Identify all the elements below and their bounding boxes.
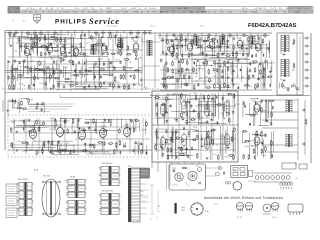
svg-text:S62: S62 [140,191,143,193]
svg-text:1k59: 1k59 [51,59,55,61]
svg-text:B8: B8 [158,206,160,208]
svg-text:MC 14 S20: MC 14 S20 [18,179,27,181]
svg-text:B9A: B9A [205,210,209,213]
svg-text:EB80: EB80 [255,41,261,43]
svg-text:S61 S62: S61 S62 [43,176,50,178]
svg-text:5p12: 5p12 [95,34,99,36]
svg-text:10k41: 10k41 [173,93,178,95]
svg-text:ECC91: ECC91 [169,44,177,46]
svg-text:64: 64 [150,219,152,221]
svg-text:9---: 9--- [305,8,309,10]
svg-text:1805.: 1805. [123,12,129,14]
svg-text:Tr 1: Tr 1 [34,169,39,172]
svg-text:4,739: 4,739 [270,62,275,64]
svg-text:PCF93: PCF93 [100,126,107,128]
svg-text:12: 12 [156,217,158,219]
svg-text:5979: 5979 [106,8,112,10]
svg-text:47k47: 47k47 [60,42,65,44]
svg-text:1k11: 1k11 [223,137,227,139]
svg-text:Service: Service [89,16,120,26]
svg-text:913..: 913.. [30,8,35,10]
svg-text:1+77: 1+77 [271,8,277,10]
svg-text:R11: R11 [144,130,147,132]
svg-text:31: 31 [147,196,149,198]
svg-text:0,111: 0,111 [224,156,228,158]
svg-text:0,14: 0,14 [158,118,162,120]
svg-text:4,743: 4,743 [213,154,218,156]
svg-text:Anschlüsse der Ventil- Röhren: Anschlüsse der Ventil- Röhren und Transi… [204,196,283,200]
svg-text:90--2: 90--2 [115,12,121,14]
svg-text:9-: 9- [100,8,102,10]
svg-text:C22: C22 [194,77,197,79]
svg-text:2n17: 2n17 [249,141,253,143]
svg-text:10,,4: 10,,4 [121,8,127,10]
svg-text:47k35: 47k35 [193,127,198,129]
svg-text:4,750: 4,750 [235,104,240,106]
svg-text:OA70: OA70 [181,206,185,209]
svg-text:0,116: 0,116 [19,83,23,85]
svg-text:6: 6 [147,208,148,210]
svg-text:26: 26 [147,190,149,192]
svg-text:617.6: 617.6 [242,8,248,10]
svg-text:PHILIPS: PHILIPS [55,18,87,25]
svg-text:C8: C8 [249,86,251,88]
svg-text:M3: M3 [140,195,143,197]
svg-text:09.58: 09.58 [200,25,205,27]
svg-text:2n40: 2n40 [138,85,142,87]
svg-text:1k21: 1k21 [257,108,261,110]
svg-text:0,152: 0,152 [86,42,91,44]
svg-text:10056: 10056 [103,75,108,77]
svg-text:WK 152 408: WK 152 408 [107,26,117,28]
svg-text:86492: 86492 [251,12,258,14]
svg-text:4,725: 4,725 [22,151,27,153]
svg-text:PL92: PL92 [237,38,243,40]
svg-text:+,,: +,, [303,12,306,14]
svg-text:4,739: 4,739 [245,59,250,61]
svg-text:22n13: 22n13 [235,61,240,63]
svg-text:4,713: 4,713 [214,47,219,49]
svg-text:8+684: 8+684 [294,12,301,14]
svg-text:4,726: 4,726 [162,97,167,99]
svg-text:TL 5x: TL 5x [272,217,277,219]
svg-text:0,156: 0,156 [16,141,21,143]
svg-text:10k58: 10k58 [183,105,188,107]
svg-text:3-2,-: 3-2,- [75,8,80,10]
svg-text:8897: 8897 [227,12,233,14]
svg-text:6,3V: 6,3V [214,204,218,206]
svg-text:0,158: 0,158 [245,114,250,116]
svg-text:47k59: 47k59 [115,59,120,61]
svg-text:R40: R40 [95,151,98,153]
svg-text:0,159: 0,159 [177,86,182,88]
svg-text:5p25: 5p25 [12,108,16,110]
svg-text:8200: 8200 [73,12,79,14]
svg-text:C57: C57 [141,129,144,131]
svg-text:EF92: EF92 [133,41,139,43]
svg-text:34: 34 [12,21,15,23]
svg-text:1k58: 1k58 [186,137,190,139]
svg-text:7: 7 [147,184,148,186]
svg-text:EB93: EB93 [209,39,215,41]
svg-text:1k29: 1k29 [171,84,175,86]
svg-text:+314: +314 [242,12,248,14]
svg-text:5: 5 [147,214,148,216]
svg-text:5p17: 5p17 [70,75,74,77]
svg-text:5p49: 5p49 [162,67,166,69]
svg-text:P. IV: P. IV [157,211,161,213]
svg-text:4,726: 4,726 [30,61,35,63]
svg-text:3-: 3- [139,8,141,10]
svg-text:5p58: 5p58 [245,146,249,148]
svg-text:TL 16: TL 16 [237,217,242,219]
svg-text:5p16: 5p16 [198,68,202,70]
svg-text:18033: 18033 [132,12,139,14]
svg-text:2+6+8: 2+6+8 [149,8,156,10]
svg-text:1k12: 1k12 [89,152,93,154]
svg-text:5p22: 5p22 [64,67,68,69]
svg-text:1,5,: 1,5, [279,8,283,10]
svg-text:N: N [23,21,25,23]
svg-text:00-47: 00-47 [15,12,21,14]
svg-text:S30: S30 [128,166,131,168]
svg-text:26-: 26- [48,12,51,14]
svg-text:5p17: 5p17 [128,68,132,70]
svg-text:S15 S16 S18: S15 S16 S18 [102,191,113,193]
svg-text:R30: R30 [46,78,49,80]
svg-text:+ 4: + 4 [295,178,298,180]
svg-text:10: 10 [147,202,149,204]
svg-text:S12 S9 S10: S12 S9 S10 [102,163,112,165]
svg-text:EF81: EF81 [73,46,79,48]
svg-text:2n58: 2n58 [198,78,202,80]
svg-text:20: 20 [147,178,149,180]
svg-text:2n51: 2n51 [40,83,44,85]
svg-text:Bd. IV: Bd. IV [150,25,156,27]
svg-text:29+97: 29+97 [63,12,70,14]
svg-text:10k40: 10k40 [94,66,99,68]
svg-text:OA79: OA79 [181,209,185,212]
svg-text:R58: R58 [213,76,216,78]
svg-text:0,117: 0,117 [220,135,224,137]
svg-text:S3 S4: S3 S4 [70,177,75,179]
svg-text:2n53: 2n53 [49,129,53,131]
svg-text:R11: R11 [14,51,17,53]
svg-text:5p12: 5p12 [207,143,211,145]
svg-text:4,745: 4,745 [219,113,224,115]
svg-text:22n18: 22n18 [261,155,266,157]
svg-text:6.507: 6.507 [131,8,137,10]
svg-text:47k9: 47k9 [204,112,208,114]
svg-text:5p60: 5p60 [193,93,197,95]
svg-text:F6D42A,B7D42AS: F6D42A,B7D42AS [248,23,297,29]
svg-text:+-: +- [199,8,201,10]
